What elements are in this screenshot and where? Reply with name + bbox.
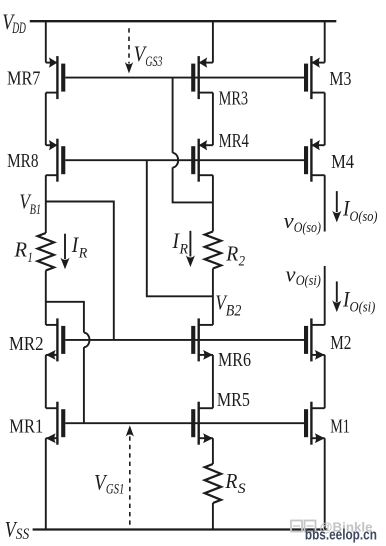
current arrow IO(si) — [336, 281, 338, 302]
svg-text:R: R — [224, 469, 237, 493]
wire — [212, 503, 214, 530]
svg-text:MR1: MR1 — [9, 415, 43, 437]
gate bus row3 (MR2-MR6-M2) — [65, 339, 304, 341]
svg-text:2: 2 — [239, 253, 246, 269]
svg-text:R: R — [14, 238, 28, 262]
wire vO(si) output stub — [324, 266, 326, 325]
wire hop over row3 gate bus — [84, 333, 90, 348]
transistor MR8 — [56, 139, 58, 182]
wire — [45, 175, 47, 233]
svg-text:v: v — [284, 208, 294, 233]
svg-text:MR6: MR6 — [218, 349, 251, 371]
transistor M2 — [310, 318, 312, 361]
resistor R1 — [38, 233, 54, 271]
gate bus row2 (MR8-MR4-M4) — [65, 159, 304, 161]
wire — [212, 21, 214, 62]
svg-text:MR3: MR3 — [219, 87, 249, 109]
transistor M1 — [310, 402, 312, 445]
resistor RS — [205, 464, 221, 503]
wire MR3 gate to node above R2 (lower part) — [173, 167, 213, 202]
current arrow IR (right) — [189, 231, 191, 257]
svg-text:M1: M1 — [330, 415, 350, 437]
svg-text:R: R — [225, 241, 238, 265]
wire — [45, 93, 47, 146]
wire R1-bottom to MR1 gate (upper part) — [46, 302, 84, 333]
transistor MR6 — [197, 318, 199, 361]
wire hop over row2 gate bus — [173, 153, 179, 168]
current arrow IO(so) — [336, 191, 338, 212]
node VB1 branch wire — [46, 202, 114, 340]
svg-text:MR5: MR5 — [217, 389, 250, 411]
wire — [324, 21, 326, 62]
wire row2 gate bus to node VB2 — [147, 160, 213, 296]
transistor MR4 — [197, 139, 199, 182]
wire — [324, 438, 326, 529]
wire — [45, 271, 47, 325]
svg-text:M3: M3 — [329, 68, 351, 90]
wire — [45, 21, 47, 62]
power rail VDD — [30, 20, 337, 22]
svg-text:MR2: MR2 — [9, 333, 44, 355]
wire MR3 gate to node above R2 (upper part) — [172, 78, 174, 153]
current arrow IR (left) — [64, 234, 66, 259]
svg-text:B1: B1 — [30, 202, 41, 218]
transistor MR5 — [197, 402, 199, 445]
transistor MR2 — [56, 318, 58, 361]
svg-text:MR4: MR4 — [219, 130, 249, 152]
svg-text:S: S — [238, 481, 247, 497]
dashed arrow VGS3 — [128, 28, 130, 63]
transistor MR7 — [56, 56, 58, 99]
resistor R2 — [205, 232, 221, 269]
gate bus row4 (MR1-MR5-M1) — [65, 422, 304, 424]
svg-text:GS1: GS1 — [106, 482, 125, 498]
svg-text:O(si): O(si) — [296, 273, 321, 289]
wire — [45, 438, 47, 529]
gate bus row1 (MR7-MR3-M3) — [65, 77, 304, 79]
svg-text:MR7: MR7 — [7, 68, 40, 90]
wire — [45, 355, 47, 408]
wire vO(so) output stub — [324, 175, 326, 231]
svg-text:MR8: MR8 — [7, 150, 38, 172]
wire — [212, 269, 214, 325]
wire — [212, 438, 214, 464]
wire — [324, 93, 326, 146]
wire R1-bottom to MR1 gate (lower part) — [83, 347, 85, 423]
svg-text:O(so): O(so) — [350, 209, 378, 225]
wire — [212, 355, 214, 408]
wire — [212, 93, 214, 146]
svg-text:GS3: GS3 — [145, 54, 162, 70]
transistor MR1 — [56, 402, 58, 445]
power rail VSS — [33, 528, 328, 530]
svg-text:R: R — [78, 246, 87, 262]
svg-text:1: 1 — [27, 250, 33, 266]
svg-text:M2: M2 — [330, 332, 351, 354]
svg-text:R: R — [179, 242, 188, 258]
transistor M4 — [310, 139, 312, 182]
wire — [212, 175, 214, 231]
svg-text:SS: SS — [16, 526, 30, 543]
transistor M3 — [310, 56, 312, 99]
watermark zhihu grey — [291, 520, 373, 535]
svg-text:B2: B2 — [226, 302, 242, 319]
dashed arrow VGS1 — [129, 436, 131, 525]
wire — [324, 355, 326, 408]
svg-text:DD: DD — [12, 20, 26, 37]
svg-text:M4: M4 — [331, 151, 354, 173]
svg-text:O(si): O(si) — [350, 299, 376, 315]
svg-text:bbs.eelop.cn: bbs.eelop.cn — [305, 527, 377, 544]
svg-text:v: v — [286, 261, 296, 286]
svg-text:O(so): O(so) — [294, 220, 321, 236]
transistor MR3 — [197, 56, 199, 99]
